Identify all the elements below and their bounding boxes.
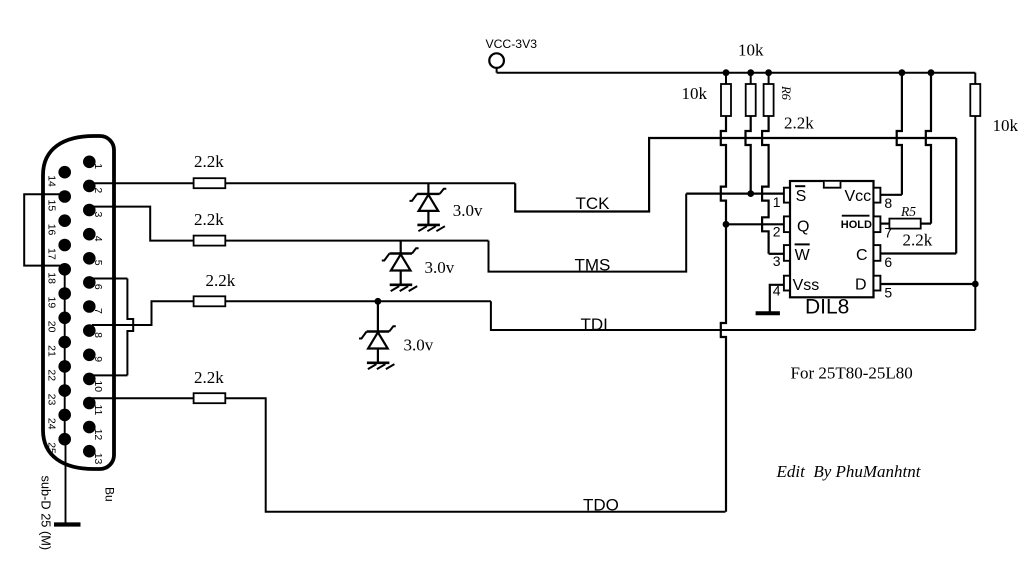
svg-text:TMS: TMS (575, 256, 611, 275)
wire ground chain pins 18-25 (64, 268, 66, 439)
wire to chip pin 6 C (880, 252, 956, 254)
wire TDI segment a (225, 300, 491, 302)
wire pin25 to ground bar (65, 439, 67, 524)
wire chip pin 8 to Vcc trunk (880, 194, 902, 196)
node D junction (972, 281, 979, 288)
svg-text:Vss: Vss (793, 277, 820, 294)
connector pin 11 (83, 397, 96, 410)
IC pin pad 4 (784, 276, 790, 291)
connector pin 8 (83, 324, 96, 337)
svg-text:S: S (796, 188, 807, 205)
wire Vcc trunk (897, 73, 902, 195)
zener diode D2 3.0v (400, 241, 402, 254)
svg-text:R6: R6 (779, 85, 793, 101)
ground bar (Vss) (756, 311, 780, 315)
ground bar below connector (54, 522, 81, 526)
svg-text:2.2k: 2.2k (784, 114, 814, 133)
wire W trunk to chip pin 3 (769, 253, 785, 255)
svg-text:14: 14 (46, 175, 58, 187)
IC pin pad 8 (874, 188, 881, 203)
connector pin 18 (58, 263, 71, 276)
svg-text:For 25T80-25L80: For 25T80-25L80 (791, 364, 913, 383)
connector pin 5 (83, 252, 96, 265)
connector pin 20 (58, 312, 71, 325)
resistor R4 2.2k (194, 236, 226, 246)
node rail junction Vcc trunk (899, 69, 906, 76)
resistor R5b 2.2k (194, 296, 226, 306)
wire R6 top (768, 73, 770, 84)
svg-text:2.2k: 2.2k (194, 152, 224, 171)
wire pin6 to pin10 vertical (127, 279, 133, 376)
svg-text:12: 12 (92, 429, 104, 441)
connector pin 17 (58, 239, 71, 252)
svg-text:16: 16 (46, 224, 58, 236)
svg-text:D: D (855, 277, 867, 294)
wire pin10 (92, 374, 127, 376)
svg-text:6: 6 (884, 254, 892, 270)
node Q junction (723, 221, 730, 228)
wire bracket pin15 to pin18 (24, 194, 62, 265)
svg-text:Edit By PhuManhtnt: Edit By PhuManhtnt (776, 462, 922, 481)
connector pin 13 (83, 445, 96, 458)
connector pin 25 (58, 433, 71, 446)
connector pin 23 (58, 384, 71, 397)
wire TCK trunk down to pin6 C (955, 138, 957, 254)
svg-text:5: 5 (884, 284, 892, 300)
terminal VCC-3V3 (489, 53, 504, 68)
wire Vss to ground (770, 285, 784, 312)
svg-text:TDO: TDO (583, 496, 619, 515)
svg-text:DIL8: DIL8 (805, 296, 849, 319)
connector pin 4 (83, 228, 96, 241)
wire pin11 to R8 (92, 397, 194, 399)
resistor R6 2.2k (764, 84, 774, 116)
svg-text:2.2k: 2.2k (206, 271, 236, 290)
connector J1 sub-D 25 outline (43, 136, 114, 469)
IC U1 DIL8 body (790, 181, 874, 297)
wire TCK step down (515, 138, 956, 212)
svg-text:8: 8 (92, 332, 104, 338)
IC notch (824, 182, 841, 188)
svg-text:13: 13 (92, 453, 104, 465)
svg-text:10k: 10k (682, 84, 708, 103)
wire W trunk (R6 bottom to pin3) (762, 116, 769, 254)
svg-text:6: 6 (92, 284, 104, 290)
wire pin8 step (92, 301, 194, 325)
svg-text:R5: R5 (900, 204, 916, 219)
connector pin 10 (83, 373, 96, 386)
svg-text:sub-D 25 (M): sub-D 25 (M) (39, 476, 54, 551)
svg-text:3.0v: 3.0v (453, 201, 483, 220)
wire chip pin 7 to R5 (880, 223, 889, 225)
svg-text:10k: 10k (993, 116, 1019, 135)
node rail junction R6 (765, 69, 772, 76)
wire rail to R7 (974, 73, 976, 84)
svg-text:10: 10 (92, 380, 104, 392)
wire Q/TDO trunk (R1 bottom to TDO) (721, 116, 726, 512)
svg-text:21: 21 (46, 345, 58, 357)
svg-text:15: 15 (46, 200, 58, 212)
node S junction (747, 190, 754, 197)
svg-text:11: 11 (92, 405, 104, 416)
IC pin pad 5 (874, 276, 881, 291)
wire R7 bottom to node D (974, 116, 976, 284)
zener diode D3 3.0v (377, 301, 379, 331)
svg-text:4: 4 (92, 236, 104, 242)
svg-text:7: 7 (92, 308, 104, 314)
connector pin 22 (58, 360, 71, 373)
connector pin 9 (83, 349, 96, 362)
wire TMS segment a (225, 240, 488, 242)
wire HOLD trunk (926, 73, 931, 224)
wire R1 top (725, 73, 727, 84)
node rail junction HOLD trunk (928, 69, 935, 76)
svg-text:3: 3 (773, 253, 781, 269)
svg-text:Q: Q (797, 218, 809, 235)
svg-text:3.0v: 3.0v (404, 336, 434, 355)
connector pin 7 (83, 300, 96, 313)
svg-text:10k: 10k (738, 40, 764, 59)
connector pin 1 (83, 156, 96, 169)
svg-text:1: 1 (92, 163, 104, 169)
IC pin pad 3 (784, 245, 790, 261)
connector pin 24 (58, 409, 71, 422)
wire pin3 step (92, 207, 194, 241)
svg-text:W: W (795, 247, 811, 264)
zener diode D1 3.0v (427, 183, 429, 194)
svg-text:25: 25 (46, 442, 58, 454)
node zener D3 junction (375, 298, 382, 305)
connector pin 3 (83, 204, 96, 217)
node rail junction R1 (723, 69, 730, 76)
wire TMS step down (489, 194, 687, 272)
wire Q to chip pin 2 (726, 223, 785, 225)
wire VCC rail (497, 72, 976, 74)
svg-text:18: 18 (46, 272, 58, 284)
node rail junction R2 (747, 69, 754, 76)
svg-text:1: 1 (773, 194, 781, 210)
IC pin pad 1 (784, 188, 790, 203)
connector pin 19 (58, 287, 71, 300)
IC pin pad 2 (784, 216, 790, 232)
svg-text:23: 23 (46, 394, 58, 406)
svg-text:5: 5 (92, 260, 104, 266)
svg-text:24: 24 (46, 418, 58, 430)
wire TCK segment a (225, 182, 515, 184)
resistor R5 2.2k (889, 219, 920, 229)
svg-text:19: 19 (46, 297, 58, 309)
svg-text:2: 2 (773, 224, 781, 240)
resistor R3 2.2k (194, 178, 226, 188)
wire VCC stem (496, 68, 498, 73)
svg-text:3: 3 (92, 212, 104, 218)
connector pin 2 (83, 180, 96, 193)
svg-text:9: 9 (92, 356, 104, 362)
svg-text:2: 2 (92, 187, 104, 193)
svg-text:Vcc: Vcc (845, 188, 872, 205)
svg-text:TDI: TDI (581, 315, 608, 334)
IC pin pad 6 (874, 245, 881, 261)
svg-text:2.2k: 2.2k (903, 231, 933, 250)
connector pin 6 (83, 276, 96, 289)
connector pin 16 (58, 214, 71, 227)
wire S line to chip pin 1 (686, 193, 785, 195)
svg-text:C: C (856, 247, 868, 264)
resistor R8 2.2k (194, 393, 226, 403)
resistor R7 10k (970, 84, 980, 116)
svg-text:HOLD: HOLD (841, 219, 872, 231)
resistor R2 10k (746, 84, 756, 116)
svg-text:TCK: TCK (576, 194, 611, 213)
svg-text:VCC-3V3: VCC-3V3 (486, 37, 538, 51)
wire pin2 to R3 (92, 182, 194, 184)
wire node D down (974, 284, 976, 330)
wire chip pin 5 D (880, 283, 975, 285)
svg-text:2.2k: 2.2k (194, 210, 224, 229)
connector pin 14 (58, 166, 71, 179)
resistor R1 10k (721, 84, 731, 116)
wire S trunk (R2 bottom) (746, 116, 751, 194)
connector pin 12 (83, 421, 96, 434)
svg-text:22: 22 (46, 369, 58, 381)
svg-text:20: 20 (46, 321, 58, 333)
connector pin 15 (58, 190, 71, 203)
wire TDO down (225, 398, 725, 512)
wire R2 top (750, 73, 752, 84)
wire TDI step down (491, 301, 975, 330)
svg-text:8: 8 (884, 195, 892, 211)
wire pin6 (92, 278, 127, 280)
svg-text:Bu: Bu (103, 487, 117, 502)
svg-text:2.2k: 2.2k (194, 368, 224, 387)
wire R5 to HOLD trunk (921, 223, 931, 225)
IC pin pad 7 (874, 216, 881, 232)
svg-text:17: 17 (46, 248, 58, 260)
svg-text:3.0v: 3.0v (425, 258, 455, 277)
connector pin 21 (58, 336, 71, 349)
